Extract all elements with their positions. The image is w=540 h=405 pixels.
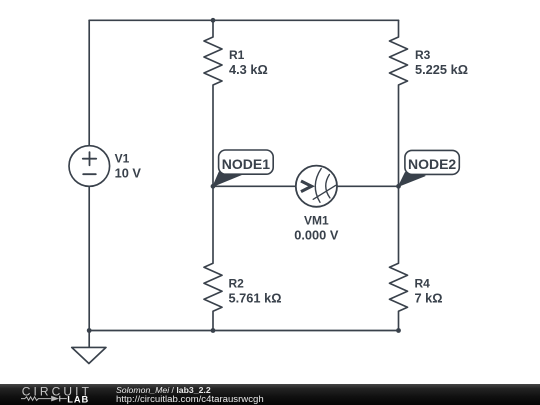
svg-text:10 V: 10 V [115,165,142,180]
svg-text:7 kΩ: 7 kΩ [415,290,443,305]
resistor R2 [204,186,222,330]
wire left lower (V1 to bottom rail) [88,186,90,330]
svg-text:R2: R2 [229,276,245,290]
wire left upper (top rail to V1) [88,20,90,146]
ground [88,331,90,348]
svg-text:NODE2: NODE2 [408,156,456,172]
node junction dot top (213,20) [211,18,216,23]
svg-text:LAB: LAB [67,395,89,405]
footer url text [116,395,264,405]
resistor R4 [390,186,408,330]
node junction dot middle node1 [211,184,216,189]
wire middle left (node1 to voltmeter) [213,185,296,187]
svg-text:5.761 kΩ: 5.761 kΩ [229,290,282,305]
voltage source V1 [69,146,110,187]
svg-text:NODE1: NODE1 [222,156,270,172]
CircuitLab logo [0,384,110,405]
svg-text:R1: R1 [229,48,245,62]
svg-text:R4: R4 [415,276,431,290]
wire top horizontal [89,19,398,21]
resistor R1 [204,20,222,186]
node NODE1 flag [213,172,242,186]
wire middle right (voltmeter to node2) [337,185,399,187]
svg-text:V1: V1 [115,151,130,165]
node junction dot bottom-left [87,328,92,333]
node junction dot bottom x=213 [211,328,216,333]
node NODE2 flag [399,173,426,187]
voltmeter VM1 [296,166,337,207]
svg-text:VM1: VM1 [304,214,329,228]
svg-text:4.3 kΩ: 4.3 kΩ [229,62,268,77]
resistor R3 [390,20,408,186]
svg-text:0.000 V: 0.000 V [294,228,339,243]
footer bar [0,384,540,405]
footer title text [116,385,211,395]
node junction dot bottom x=398.5 [396,328,401,333]
wire bottom horizontal [89,330,398,332]
node junction dot middle node2 [396,184,401,189]
svg-text:R3: R3 [415,48,431,62]
svg-text:5.225 kΩ: 5.225 kΩ [415,62,468,77]
